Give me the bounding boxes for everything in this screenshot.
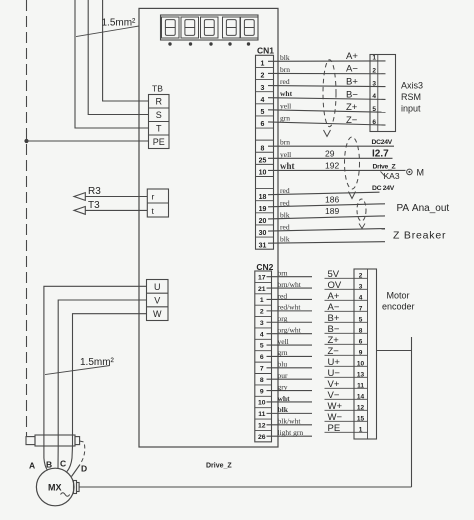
wire CN1 pin 6 (grn) to RSM pin 6 bbox=[268, 122, 386, 125]
wire encoder W+ pin 12 bbox=[325, 409, 368, 411]
svg-text:R: R bbox=[155, 97, 162, 107]
wire CN2 pin 17 (brn) bbox=[267, 276, 313, 278]
wire CN1 pin 31 (blk) bbox=[268, 242, 385, 244]
svg-text:red: red bbox=[280, 186, 290, 195]
svg-text:wht: wht bbox=[280, 161, 295, 171]
encoder pin column divider bbox=[367, 269, 369, 439]
UVW divider 1 bbox=[147, 292, 169, 294]
wire encoder PE pin 1 bbox=[325, 431, 368, 433]
wire mains R phase bbox=[103, 0, 149, 101]
wire CN1 pin 18 (red) DC 24V bbox=[268, 192, 380, 195]
wire motor phase W bbox=[67, 314, 147, 472]
svg-text:C: C bbox=[60, 459, 66, 469]
svg-text:r: r bbox=[152, 192, 155, 202]
svg-text:12: 12 bbox=[357, 404, 365, 411]
display digit 3 bbox=[201, 17, 219, 38]
CN2 cell divider 6 bbox=[255, 338, 272, 340]
display digit 4 bbox=[223, 17, 241, 38]
svg-text:10: 10 bbox=[259, 170, 267, 177]
svg-text:wht: wht bbox=[280, 89, 293, 98]
svg-text:2: 2 bbox=[359, 272, 363, 279]
svg-text:Motor: Motor bbox=[387, 291, 410, 301]
svg-text:R3: R3 bbox=[88, 186, 101, 197]
svg-text:TB: TB bbox=[152, 84, 163, 94]
control power terminal block r/t bbox=[147, 189, 168, 217]
wire encoder V&#8722; pin 14 bbox=[325, 398, 368, 400]
svg-text:18: 18 bbox=[259, 194, 267, 201]
arrow T3 (off-page, points left) bbox=[74, 207, 85, 215]
wire CN1 pin 8 (brn) DC24V bbox=[268, 145, 394, 147]
svg-text:RSM: RSM bbox=[401, 92, 421, 102]
motor MX body bbox=[36, 468, 74, 506]
CN1 cell divider 4 bbox=[256, 103, 274, 105]
wire encoder OV pin 3 bbox=[325, 288, 368, 290]
svg-text:8: 8 bbox=[261, 145, 265, 152]
svg-text:6: 6 bbox=[260, 354, 264, 361]
cable shield ellipse (24V cable) bbox=[345, 137, 360, 189]
svg-text:B−: B− bbox=[346, 89, 358, 100]
wire CN1 pin 19 (red) 186 bbox=[268, 204, 385, 207]
svg-text:A: A bbox=[29, 461, 35, 471]
wire CN1 pin 10 (wht) Drive_Z bbox=[268, 169, 406, 171]
svg-text:1: 1 bbox=[359, 426, 363, 433]
svg-text:189: 189 bbox=[325, 206, 339, 216]
motor shaft step 2 bbox=[77, 483, 80, 492]
svg-text:8: 8 bbox=[359, 327, 363, 334]
TB divider 3 bbox=[149, 134, 170, 136]
svg-text:PE: PE bbox=[328, 423, 341, 434]
svg-text:1.5mm²: 1.5mm² bbox=[80, 357, 115, 368]
svg-text:red: red bbox=[280, 223, 290, 232]
svg-text:7: 7 bbox=[260, 366, 264, 373]
wire encoder shield vertical bbox=[411, 337, 413, 487]
CN2 cell divider 12 bbox=[255, 407, 272, 409]
wire encoder Z+ pin 6 bbox=[325, 343, 368, 345]
CN1 cell divider 10 bbox=[256, 175, 274, 177]
connector CN2 body bbox=[255, 271, 272, 442]
CN1 cell divider 12 bbox=[256, 200, 274, 202]
wire encoder B&#8722; pin 8 bbox=[325, 332, 368, 334]
svg-text:11: 11 bbox=[357, 382, 364, 389]
wire encoder B+ pin 5 bbox=[325, 321, 368, 323]
svg-text:4: 4 bbox=[260, 331, 264, 338]
wire CN1 pin 2 (brn) to RSM pin 2 bbox=[268, 72, 386, 74]
wire motor frame ground to encoder shield bbox=[79, 486, 411, 488]
svg-text:encoder: encoder bbox=[382, 301, 415, 311]
CN2 cell divider 14 bbox=[255, 429, 272, 431]
wire encoder 5V pin 2 bbox=[325, 277, 368, 279]
CN2 cell divider 13 bbox=[255, 418, 272, 420]
wire CN2 pin 21 (brn/wht) bbox=[267, 287, 313, 289]
svg-text:DC24V: DC24V bbox=[372, 139, 393, 146]
svg-text:U: U bbox=[154, 282, 161, 292]
svg-text:blk: blk bbox=[278, 405, 289, 414]
wire T3 to terminal t bbox=[85, 209, 147, 211]
svg-text:red: red bbox=[278, 291, 288, 300]
svg-text:KA3: KA3 bbox=[384, 171, 400, 181]
wire CN2 pin 26 (light grn) bbox=[267, 435, 313, 437]
wire CN2 pin 5 (yell) bbox=[267, 344, 313, 346]
svg-text:Drive_Z: Drive_Z bbox=[206, 463, 232, 470]
svg-text:blk: blk bbox=[280, 53, 290, 62]
cable clamp right cap bbox=[75, 437, 80, 445]
svg-text:V−: V− bbox=[328, 390, 340, 401]
svg-text:blu: blu bbox=[278, 360, 288, 369]
svg-text:T3: T3 bbox=[88, 200, 100, 211]
svg-text:W: W bbox=[153, 309, 162, 319]
leader line for wire gauge label bbox=[76, 26, 139, 37]
wire shield drain (dashed) from top to cable clamp bbox=[26, 0, 28, 437]
wire encoder V+ pin 11 bbox=[325, 387, 368, 389]
svg-text:13: 13 bbox=[357, 371, 365, 378]
svg-text:6: 6 bbox=[372, 119, 376, 126]
svg-text:10: 10 bbox=[357, 360, 365, 367]
CN2 cell divider 5 bbox=[255, 327, 272, 329]
wire mains S phase bbox=[88, 0, 148, 115]
shield drain arrow (24V cable) bbox=[349, 192, 356, 199]
wire encoder U+ pin 10 bbox=[325, 365, 368, 367]
wire CN1 pin 4 (wht) to RSM pin 4 bbox=[268, 98, 386, 100]
svg-text:B: B bbox=[46, 460, 52, 470]
svg-text:yell: yell bbox=[278, 337, 289, 346]
motor shaft step 1 bbox=[74, 481, 77, 494]
svg-text:DC 24V: DC 24V bbox=[372, 185, 395, 192]
svg-text:Z+: Z+ bbox=[346, 102, 358, 113]
wire to motor pin D bbox=[72, 465, 81, 477]
CN1 cell divider 5 bbox=[256, 115, 274, 117]
motor winding tilde bbox=[61, 493, 70, 497]
CN1 cell divider 8 bbox=[256, 151, 274, 153]
terminal M circle bbox=[407, 169, 413, 175]
svg-text:grn: grn bbox=[280, 113, 290, 122]
svg-text:30: 30 bbox=[259, 230, 267, 237]
svg-text:14: 14 bbox=[357, 393, 365, 400]
svg-text:3: 3 bbox=[359, 283, 363, 290]
svg-text:Z Breaker: Z Breaker bbox=[393, 230, 446, 242]
svg-text:3: 3 bbox=[372, 80, 376, 87]
svg-text:186: 186 bbox=[325, 194, 339, 204]
svg-text:brn/wht: brn/wht bbox=[278, 280, 302, 289]
wire CN1 pin 20 (blk) 189 bbox=[268, 216, 385, 219]
CN2 cell divider 3 bbox=[255, 304, 272, 306]
svg-text:10: 10 bbox=[258, 400, 266, 407]
svg-text:light grn: light grn bbox=[278, 428, 304, 437]
shield drain arrow (analog pair) bbox=[359, 224, 365, 229]
svg-text:19: 19 bbox=[259, 206, 267, 213]
display digit 5 bbox=[241, 17, 259, 38]
display module outline bbox=[161, 15, 259, 40]
wire CN1 pin 5 (yell) to RSM pin 5 bbox=[268, 110, 386, 112]
svg-text:S: S bbox=[156, 110, 162, 120]
svg-text:Axis3: Axis3 bbox=[401, 80, 423, 90]
CN2 cell divider 2 bbox=[255, 293, 272, 295]
display digit 1 bbox=[162, 17, 180, 38]
svg-text:4: 4 bbox=[359, 294, 363, 301]
svg-text:31: 31 bbox=[259, 242, 267, 249]
CN1 cell divider 14 bbox=[256, 224, 274, 226]
UVW divider 2 bbox=[147, 306, 169, 308]
svg-text:yell: yell bbox=[280, 101, 291, 110]
svg-text:3: 3 bbox=[261, 85, 265, 92]
svg-text:CN1: CN1 bbox=[257, 46, 274, 56]
svg-text:B−: B− bbox=[328, 324, 340, 335]
CN2 cell divider 8 bbox=[255, 361, 272, 363]
svg-text:6: 6 bbox=[359, 338, 363, 345]
svg-text:PA Ana_out: PA Ana_out bbox=[397, 203, 450, 214]
svg-text:B+: B+ bbox=[328, 313, 340, 324]
svg-text:blk: blk bbox=[280, 235, 290, 244]
svg-text:U+: U+ bbox=[328, 357, 341, 368]
svg-text:5: 5 bbox=[359, 316, 363, 323]
wire motor phase U bbox=[44, 286, 147, 470]
wire encoder A+ pin 4 bbox=[325, 299, 368, 301]
svg-text:red: red bbox=[280, 77, 290, 86]
wire CN1 pin 1 (blk) to RSM pin 1 bbox=[268, 60, 386, 62]
svg-text:yell: yell bbox=[280, 150, 291, 159]
svg-text:org: org bbox=[278, 314, 288, 323]
CN2 cell divider 7 bbox=[255, 350, 272, 352]
display digit 2 bbox=[181, 17, 199, 38]
wire CN2 pin 12 (blk/wht) bbox=[267, 424, 313, 426]
CN1 cell divider 1 bbox=[256, 66, 274, 68]
svg-text:brn: brn bbox=[278, 268, 288, 277]
svg-text:A−: A− bbox=[328, 302, 340, 313]
r/t divider bbox=[147, 202, 168, 204]
wire R3 to terminal r bbox=[85, 196, 147, 198]
wire encoder W&#8722; pin 15 bbox=[325, 420, 368, 422]
TB divider 1 bbox=[149, 107, 170, 109]
wire CN1 pin 30 (red) bbox=[268, 229, 385, 232]
shield drain arrow (RSM cable) bbox=[324, 130, 331, 137]
CN2 cell divider 11 bbox=[255, 395, 272, 397]
wire CN2 pin 11 (blk) bbox=[267, 412, 313, 414]
svg-text:Z−: Z− bbox=[346, 115, 358, 126]
svg-text:V+: V+ bbox=[328, 379, 340, 390]
svg-text:M: M bbox=[417, 167, 425, 177]
svg-text:OV: OV bbox=[328, 280, 342, 291]
svg-text:8: 8 bbox=[260, 377, 264, 384]
svg-text:PE: PE bbox=[153, 137, 165, 147]
CN1 cell divider 13 bbox=[256, 212, 274, 214]
cable shield ellipse (analog pair) bbox=[357, 199, 366, 221]
wire CN2 pin 4 (org/wht) bbox=[267, 333, 313, 335]
cable shield ellipse (RSM cable) bbox=[323, 60, 336, 127]
svg-text:A−: A− bbox=[346, 64, 358, 75]
svg-text:grn: grn bbox=[278, 348, 288, 357]
wire CN2 pin 6 (grn) bbox=[267, 355, 313, 357]
svg-text:25: 25 bbox=[259, 158, 267, 165]
CN1 cell divider 2 bbox=[256, 79, 274, 81]
svg-text:A+: A+ bbox=[328, 291, 340, 302]
servo drive enclosure box bbox=[139, 8, 278, 447]
svg-text:V: V bbox=[154, 296, 160, 306]
svg-text:17: 17 bbox=[258, 274, 266, 281]
CN2 cell divider 4 bbox=[255, 316, 272, 318]
svg-text:Drive_Z: Drive_Z bbox=[373, 163, 396, 170]
svg-text:W−: W− bbox=[328, 412, 343, 423]
connector Axis3 RSM input body bbox=[370, 55, 396, 132]
svg-text:1.5mm²: 1.5mm² bbox=[102, 18, 137, 29]
wire encoder U&#8722; pin 13 bbox=[325, 376, 368, 378]
svg-text:20: 20 bbox=[259, 218, 267, 225]
svg-text:9: 9 bbox=[359, 349, 363, 356]
svg-text:blk: blk bbox=[280, 210, 290, 219]
svg-text:21: 21 bbox=[258, 286, 266, 293]
svg-text:12: 12 bbox=[258, 422, 266, 429]
display dot 1 bbox=[168, 42, 171, 45]
svg-text:B+: B+ bbox=[346, 77, 358, 88]
svg-text:4: 4 bbox=[372, 93, 376, 100]
svg-text:blk/wht: blk/wht bbox=[278, 417, 302, 426]
KA3 leader tick bbox=[381, 171, 386, 177]
svg-text:brn: brn bbox=[280, 65, 290, 74]
svg-text:Z+: Z+ bbox=[328, 335, 340, 346]
wire CN2 pin 2 (red/wht) bbox=[267, 310, 313, 312]
svg-text:brn: brn bbox=[280, 138, 290, 147]
svg-text:U−: U− bbox=[328, 368, 341, 379]
wire encoder connector shield stub bbox=[377, 350, 412, 352]
svg-text:5: 5 bbox=[260, 343, 264, 350]
wire CN1 pin 3 (red) to RSM pin 3 bbox=[268, 85, 386, 88]
svg-text:6: 6 bbox=[261, 121, 265, 128]
junction PE/shield node bbox=[24, 139, 28, 143]
svg-text:Z−: Z− bbox=[328, 346, 340, 357]
CN2 cell divider 10 bbox=[255, 384, 272, 386]
display dot 5 bbox=[247, 42, 250, 45]
CN1 cell divider 11 bbox=[256, 188, 274, 190]
svg-text:3: 3 bbox=[260, 320, 264, 327]
connector Motor encoder body bbox=[354, 269, 377, 439]
wire CN2 pin 1 (red) bbox=[267, 298, 313, 300]
connector CN1 body bbox=[256, 55, 274, 249]
CN1 cell divider 6 bbox=[256, 127, 274, 129]
svg-text:I2.7: I2.7 bbox=[372, 148, 389, 159]
wire CN2 pin 7 (blu) bbox=[267, 367, 313, 369]
svg-text:red/wht: red/wht bbox=[278, 303, 302, 312]
svg-text:15: 15 bbox=[357, 415, 365, 422]
wire CN2 pin 8 (pur) bbox=[267, 378, 313, 380]
wire CN1 pin 25 (yell) 29/I2.7 bbox=[268, 157, 393, 159]
leader line for wire gauge label (bottom) bbox=[45, 366, 110, 375]
svg-text:5: 5 bbox=[372, 106, 376, 113]
wire CN2 pin 9 (gry) bbox=[267, 390, 313, 392]
svg-text:input: input bbox=[401, 104, 421, 114]
svg-text:2: 2 bbox=[372, 68, 376, 75]
display dot 2 bbox=[189, 42, 192, 45]
wire PE to terminal block bbox=[27, 140, 149, 142]
TB divider 2 bbox=[149, 121, 170, 123]
svg-text:7: 7 bbox=[359, 305, 363, 312]
svg-text:9: 9 bbox=[260, 388, 264, 395]
wire encoder A&#8722; pin 7 bbox=[325, 310, 368, 312]
svg-text:2: 2 bbox=[260, 309, 264, 316]
svg-text:1: 1 bbox=[372, 55, 376, 62]
svg-text:pur: pur bbox=[278, 371, 289, 380]
svg-text:T: T bbox=[156, 124, 162, 134]
terminal block U/V/W outline bbox=[147, 280, 169, 321]
svg-text:29: 29 bbox=[325, 148, 335, 158]
svg-text:wht: wht bbox=[278, 394, 291, 403]
CN1 cell divider 15 bbox=[256, 236, 274, 238]
wire CN2 pin 10 (wht) bbox=[267, 401, 313, 403]
svg-text:gry: gry bbox=[278, 382, 288, 391]
wire mains T phase bbox=[75, 0, 149, 128]
arrow R3 (off-page, points left) bbox=[74, 193, 85, 201]
svg-text:org/wht: org/wht bbox=[278, 325, 302, 334]
svg-text:W+: W+ bbox=[328, 401, 343, 412]
cable clamp body bbox=[35, 435, 75, 446]
display dot 3 bbox=[209, 42, 212, 45]
display dot 4 bbox=[228, 42, 231, 45]
CN1 cell divider 3 bbox=[256, 91, 274, 93]
svg-text:192: 192 bbox=[325, 160, 339, 170]
svg-text:1: 1 bbox=[261, 61, 265, 68]
svg-text:5V: 5V bbox=[328, 269, 340, 280]
terminal block TB outline bbox=[149, 95, 170, 149]
svg-text:MX: MX bbox=[48, 483, 62, 493]
CN2 cell divider 9 bbox=[255, 373, 272, 375]
svg-text:26: 26 bbox=[258, 434, 266, 441]
svg-text:D: D bbox=[81, 464, 87, 474]
CN1 cell divider 9 bbox=[256, 163, 274, 165]
wire CN2 pin 3 (org) bbox=[267, 321, 313, 323]
svg-text:11: 11 bbox=[258, 411, 265, 418]
wire encoder Z&#8722; pin 9 bbox=[325, 354, 368, 356]
RSM pin column divider bbox=[377, 55, 379, 132]
shield wire to motor pin D (dashed curve) bbox=[80, 441, 85, 464]
cable clamp left cap bbox=[26, 437, 35, 445]
svg-text:5: 5 bbox=[261, 109, 265, 116]
svg-text:4: 4 bbox=[261, 97, 265, 104]
svg-text:2: 2 bbox=[261, 73, 265, 80]
svg-text:1: 1 bbox=[260, 297, 264, 304]
svg-text:red: red bbox=[280, 198, 290, 207]
wire motor phase V bbox=[58, 300, 147, 469]
CN1 cell divider 7 bbox=[256, 139, 274, 141]
svg-text:A+: A+ bbox=[346, 51, 358, 62]
CN2 cell divider 1 bbox=[255, 281, 272, 283]
